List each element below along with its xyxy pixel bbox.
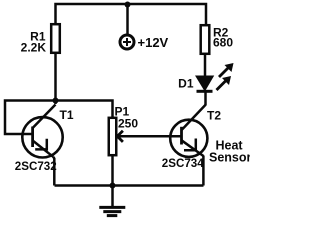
svg-text:250: 250 (118, 117, 138, 131)
wire bottom emitter rail (55, 184, 204, 187)
wire T1 emitter to bottom rail (53, 157, 54, 186)
svg-text:+12V: +12V (138, 35, 169, 50)
resistor R2 (201, 25, 210, 54)
wire T2 emitter to bottom rail (202, 156, 205, 186)
svg-text:2SC732: 2SC732 (15, 160, 57, 173)
wire P1 wiper to T2 base (118, 135, 182, 138)
transistor T1 (2SC732) (22, 105, 62, 158)
LED D1 (197, 63, 234, 91)
potentiometer P1 body (109, 118, 117, 155)
wire D1 cathode to T2 collector (204, 91, 207, 105)
resistor R1 (51, 24, 60, 53)
wire R2 bottom to D1 anode (204, 54, 207, 77)
wire R1 bottom to node A and T1 collector (54, 53, 57, 104)
svg-text:680: 680 (213, 36, 233, 50)
wire P1 bottom to ground rail (111, 155, 114, 186)
svg-text:T1: T1 (60, 108, 74, 122)
junction ground node (110, 183, 116, 189)
wire +V rail top (56, 4, 207, 24)
wire feedback node A to T1 base (5, 101, 56, 135)
svg-text:2.2K: 2.2K (21, 41, 47, 55)
svg-text:D1: D1 (178, 77, 194, 91)
junction node A (53, 98, 59, 104)
svg-text:T2: T2 (207, 109, 221, 123)
power supply +12V symbol (120, 35, 134, 49)
transistor T2 (2SC734) (170, 105, 207, 157)
wire node A to P1 top (56, 101, 113, 118)
svg-text:2SC734: 2SC734 (162, 157, 204, 170)
ground symbol (99, 186, 125, 216)
P1 wiper arrowhead (117, 131, 123, 142)
wire rail to +12V supply (126, 4, 129, 34)
junction +V rail to supply (125, 2, 131, 8)
svg-text:Sensor: Sensor (209, 151, 250, 165)
